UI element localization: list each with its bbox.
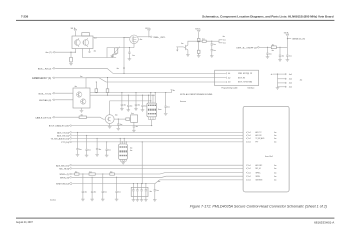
capacitor C418	[86, 135, 87, 136]
wire AUX_TX	[72, 131, 243, 133]
wire Q401 gate	[133, 44, 135, 48]
svg-text:4xx: 4xx	[138, 105, 141, 107]
svg-text:4x1: 4x1	[248, 135, 251, 137]
node collector bias	[198, 41, 199, 42]
resistor R406	[202, 40, 206, 42]
svg-text:4xx 4xx: 4xx 4xx	[50, 200, 56, 202]
capacitor C412	[135, 92, 136, 93]
connector SPKR+	[70, 173, 72, 175]
pin J401 SPKR+	[246, 172, 247, 174]
capacitor C416	[133, 122, 135, 126]
svg-text:4xx: 4xx	[75, 171, 78, 173]
wire TX net	[90, 92, 172, 94]
node C408	[279, 47, 280, 48]
pin row BOOT_RX	[226, 77, 227, 79]
wire R410 to SW_B+	[276, 46, 287, 48]
capacitor C411	[128, 95, 129, 96]
svg-text:4xx: 4xx	[130, 148, 133, 150]
wire FL402 pin3	[123, 138, 125, 144]
capacitor C423	[102, 173, 103, 174]
svg-text:4xx: 4xx	[158, 181, 161, 183]
wire CABLE_DET	[55, 116, 79, 118]
svg-text:August 24, 2007: August 24, 2007	[16, 221, 33, 224]
wire gate net	[116, 47, 134, 49]
wire BOOT_DATA_RX	[72, 125, 152, 127]
connector J401 box	[243, 106, 289, 192]
svg-text:4xx: 4xx	[269, 53, 272, 55]
svg-text:4xx: 4xx	[167, 106, 170, 108]
svg-text:4xx: 4xx	[104, 192, 107, 194]
svg-text:4xx: 4xx	[94, 192, 97, 194]
svg-text:UNSW_B+ (9): UNSW_B+ (9)	[292, 39, 305, 41]
wire Q404 collector	[110, 101, 151, 115]
ferrite bead E402	[89, 173, 95, 175]
wire FL401 pin1	[148, 95, 150, 103]
pin J401 TX_RX_AUD	[246, 138, 247, 140]
wire U451 pin 3 stub	[89, 49, 91, 52]
resistor R407 pullup	[95, 82, 97, 89]
svg-text:PTT (10): PTT (10)	[61, 142, 69, 144]
svg-text:SPKR- (9): SPKR- (9)	[60, 177, 69, 179]
svg-text:4xx xxx: 4xx xxx	[180, 101, 186, 103]
wire SW_B+ riser	[286, 36, 288, 47]
wire bias out	[212, 40, 219, 42]
svg-text:4x: 4x	[271, 74, 273, 76]
svg-text:4xx: 4xx	[110, 171, 113, 173]
pin row BOOT_TX	[226, 81, 227, 83]
svg-text:4xx1: 4xx1	[289, 83, 292, 85]
node C407	[267, 47, 268, 48]
svg-text:4x1: 4x1	[248, 142, 251, 144]
capacitor C410	[121, 92, 122, 93]
svg-text:4xx: 4xx	[140, 39, 143, 41]
svg-text:Programming Cable: Programming Cable	[222, 88, 238, 90]
wire FL402 bottom	[120, 159, 126, 162]
power flag SW_B+ Q401	[147, 30, 150, 32]
footer rule	[16, 218, 334, 219]
svg-text:AUX_MIC: AUX_MIC	[256, 164, 264, 167]
svg-text:SPKR+: SPKR+	[256, 172, 261, 174]
svg-text:SW_B+: SW_B+	[145, 28, 150, 30]
svg-text:SW_B+: SW_B+	[71, 28, 76, 30]
filter FL401 contacts	[148, 105, 150, 106]
wire Q402 collector	[188, 41, 212, 45]
wire IGNITION	[72, 180, 243, 184]
wire R452 to ground	[70, 62, 72, 63]
svg-text:4xx1: 4xx1	[289, 74, 292, 76]
svg-text:4xx: 4xx	[81, 114, 84, 116]
wire FL402 pin2	[121, 142, 123, 144]
capacitor C424	[116, 177, 117, 178]
pin J401 AUX_TX	[246, 132, 247, 134]
connector BOOT_DATA_RX	[70, 125, 72, 127]
input arrow DATA	[176, 47, 178, 51]
wire R409 to Q404	[86, 117, 105, 119]
transistor Q403A	[77, 92, 82, 97]
connector IGNITION	[70, 183, 72, 185]
wire FL401 pin4	[154, 93, 156, 104]
component U402 box	[131, 115, 138, 122]
svg-text:4x1: 4x1	[248, 138, 251, 140]
svg-text:Figure 7-172. PMLD4035A Secure: Figure 7-172. PMLD4035A Secure Control-H…	[190, 204, 327, 208]
wire SPKR+ segment 4	[114, 173, 243, 174]
svg-text:4xx: 4xx	[132, 55, 135, 57]
svg-text:AUX_RX (11): AUX_RX (11)	[57, 135, 69, 138]
svg-text:4xx: 4xx	[272, 50, 275, 52]
svg-text:SPKR-: SPKR-	[256, 176, 261, 178]
ground Q403	[80, 110, 84, 112]
capacitor C419	[97, 138, 98, 139]
svg-text:TX_RX_AUD: TX_RX_AUD	[256, 137, 266, 140]
pin J401 IGNITION	[246, 179, 247, 181]
wire accessory stub 1	[278, 73, 287, 75]
svg-text:4xx: 4xx	[213, 44, 216, 46]
connector AUX_RX	[70, 135, 72, 137]
wire to U451 pin	[74, 49, 76, 53]
capacitor C413	[142, 95, 143, 96]
svg-text:4xxx J4x1: 4xxx J4x1	[265, 156, 273, 158]
capacitor C406	[211, 48, 213, 51]
connector TX_RX_AUD	[70, 138, 72, 140]
ground FL402	[121, 162, 125, 164]
svg-text:4xx: 4xx	[223, 43, 226, 45]
svg-text:4xx: 4xx	[274, 138, 277, 140]
wire Q401 drain	[124, 37, 130, 39]
wire flag to source	[148, 31, 150, 37]
capacitor C407	[267, 47, 269, 53]
svg-text:AUX_MIC (15): AUX_MIC (15)	[56, 164, 69, 167]
wire flag to U451	[74, 31, 76, 36]
svg-text:MIC_HI: MIC_HI	[256, 168, 262, 170]
wire BUS+_RX	[55, 68, 225, 73]
svg-text:SPKR+ (1): SPKR+ (1)	[59, 174, 69, 176]
svg-text:4xx: 4xx	[223, 36, 226, 38]
svg-text:4xx: 4xx	[144, 106, 147, 108]
svg-text:4xx: 4xx	[85, 192, 88, 194]
svg-text:4x1: 4x1	[248, 165, 251, 167]
wire stub OPT1	[219, 40, 223, 41]
svg-text:AUX_RX: AUX_RX	[256, 134, 262, 137]
wire RX net	[90, 94, 155, 96]
svg-text:EMERGENCY (4): EMERGENCY (4)	[32, 77, 51, 80]
wire MIC_HI	[72, 167, 243, 169]
pin J401 AUX_RX	[246, 135, 247, 137]
resistor R452	[70, 57, 73, 62]
transistor Q401	[130, 35, 139, 44]
wire PTT	[72, 141, 243, 143]
connector CABLE_DET	[53, 116, 55, 118]
wire Q403 emitter	[81, 108, 83, 110]
connector BUS+_RX	[53, 68, 55, 70]
pin J401 AUX_MIC	[246, 164, 247, 166]
svg-text:4xx: 4xx	[75, 86, 78, 88]
wire C405 C406	[211, 45, 213, 49]
svg-text:4xx: 4xx	[300, 80, 303, 82]
svg-text:SW_B+: SW_B+	[195, 29, 200, 31]
wire Q402 emitter to ground	[187, 50, 189, 55]
wire accessory stub 4	[278, 86, 287, 88]
connector BUS-_TX	[53, 92, 55, 94]
wire flag to R404	[198, 32, 200, 38]
capacitor C414	[165, 92, 166, 93]
wire Q403 top riser	[85, 78, 87, 88]
resistor R409	[79, 116, 86, 119]
pin row XPRS_BOOT	[226, 73, 227, 75]
svg-text:4x1: 4x1	[248, 172, 251, 174]
wire U451 output to Q401	[93, 37, 130, 39]
dual transistor Q403 box	[73, 88, 90, 108]
svg-text:4xx: 4xx	[274, 172, 277, 174]
svg-text:4xxx: 4xxx	[158, 109, 162, 111]
wire KEYFAIL	[55, 99, 73, 101]
wire FL401 pin3	[152, 95, 154, 103]
svg-text:4xx: 4xx	[124, 105, 127, 107]
wire C451 to ground	[128, 53, 130, 59]
svg-text:4x1: 4x1	[248, 176, 251, 178]
filter FL401 box	[147, 103, 157, 117]
power flag SW_B+ right	[286, 35, 289, 37]
svg-text:KEYFAIL (8): KEYFAIL (8)	[39, 99, 51, 102]
capacitor C427	[141, 183, 142, 184]
svg-text:4xx1: 4xx1	[289, 79, 292, 81]
wire SPKR+ segment 2	[79, 173, 89, 175]
svg-text:SW_B+: SW_B+	[284, 33, 289, 35]
svg-text:BOOT_DATA_RX (13): BOOT_DATA_RX (13)	[49, 125, 69, 128]
ground accessory	[276, 88, 280, 90]
resistor R404	[197, 38, 200, 41]
capacitor C408	[279, 47, 281, 55]
wire FL401 to BOOT_DATA_RX	[151, 120, 153, 126]
svg-text:Schematics, Component Location: Schematics, Component Location Diagrams,…	[202, 15, 334, 19]
wire riser PTT to ignition	[141, 142, 143, 184]
svg-text:4x1: 4x1	[228, 73, 231, 75]
connector AUX_MIC	[70, 164, 72, 166]
svg-text:4x1: 4x1	[248, 168, 251, 170]
wire R405 to ground	[198, 53, 200, 55]
ferrite bead E401	[75, 173, 79, 175]
connector PTT	[70, 141, 72, 143]
node Q401 drain	[123, 37, 124, 38]
wire VIP input	[55, 51, 75, 53]
ground R405	[197, 56, 201, 58]
capacitor C425	[133, 183, 134, 184]
svg-text:4xx: 4xx	[79, 149, 82, 151]
svg-text:BOOT_RX: BOOT_RX	[238, 77, 245, 79]
ferrite bead E403	[110, 173, 115, 175]
wire AUX_RX	[72, 134, 243, 136]
capacitor C415	[118, 119, 119, 120]
capacitor C451 on gate	[128, 48, 130, 53]
svg-text:AUX_TX: AUX_TX	[256, 131, 262, 134]
wire Q401 source	[138, 36, 148, 38]
capacitor array box C425-C428	[131, 187, 148, 196]
svg-text:7-236: 7-236	[21, 15, 29, 19]
svg-text:4xx: 4xx	[94, 51, 97, 53]
svg-text:4xx: 4xx	[213, 50, 216, 52]
svg-text:4xx: 4xx	[156, 190, 159, 192]
capacitor C426	[137, 183, 138, 184]
svg-text:IGNITION: IGNITION	[256, 180, 263, 182]
svg-text:4xx: 4xx	[131, 113, 134, 115]
wire accessory riser	[277, 74, 279, 88]
resistor network box R451	[82, 33, 90, 36]
transistor Q404	[105, 115, 114, 124]
svg-text:4xx: 4xx	[282, 55, 285, 57]
wire TX_RX_AUD	[72, 137, 243, 139]
svg-text:4x1: 4x1	[94, 38, 97, 40]
connector MIC_HI	[70, 168, 72, 170]
wire Q404 emitter	[109, 124, 111, 127]
wire BUS-_TX	[55, 92, 73, 94]
ground R453	[110, 56, 114, 58]
node C405 top	[211, 41, 212, 42]
capacitor C420	[106, 141, 107, 142]
svg-text:6816533H01-A: 6816533H01-A	[314, 220, 334, 224]
connector SPKR-	[70, 177, 72, 179]
svg-text:XPRS_BOOT(B)_OP: XPRS_BOOT(B)_OP	[238, 73, 252, 75]
ground C451	[128, 59, 132, 61]
svg-text:4xx: 4xx	[181, 43, 184, 45]
connector KEYFAIL	[53, 99, 55, 101]
transistor Q403B	[81, 99, 86, 104]
wire boot row2	[86, 77, 225, 79]
node bus row1	[123, 73, 124, 74]
wire DSPL to R410	[259, 46, 271, 48]
svg-text:4xx: 4xx	[274, 168, 277, 170]
wire U451 pin 2 down	[83, 49, 117, 58]
wire SPKR+ segment 3	[95, 173, 110, 175]
svg-text:BUS-_TX (5): BUS-_TX (5)	[39, 93, 52, 95]
svg-text:4xx: 4xx	[99, 149, 102, 151]
svg-text:PTT: PTT	[256, 142, 259, 144]
filter FL402 box	[119, 144, 128, 159]
wire Q402 base	[178, 46, 183, 48]
connector AUX_TX	[70, 132, 72, 134]
capacitor C421	[82, 173, 83, 174]
svg-text:4xx: 4xx	[150, 191, 153, 193]
svg-text:BOOT_TX RX/TX(R): BOOT_TX RX/TX(R)	[238, 82, 252, 84]
wire SPKR+ segment 1	[72, 173, 75, 175]
wire FL402 pin4	[125, 142, 127, 144]
connector EMERGENCY	[53, 77, 55, 79]
svg-text:4xx: 4xx	[130, 106, 133, 108]
svg-text:4xx: 4xx	[274, 142, 277, 144]
wire R453 to ground	[112, 53, 116, 56]
svg-text:4xx: 4xx	[274, 176, 277, 178]
svg-text:4xx: 4xx	[89, 171, 92, 173]
svg-text:4xx: 4xx	[223, 40, 226, 42]
svg-text:4x3: 4x3	[228, 82, 231, 84]
power flag SW_B+ bias	[197, 30, 200, 32]
power flag SW_B+ U451	[74, 30, 77, 32]
transistor Q451A	[74, 40, 80, 46]
node junction VIP	[75, 52, 76, 53]
svg-text:4xx: 4xx	[108, 149, 111, 151]
svg-text:CABLE_DET (3): CABLE_DET (3)	[35, 116, 51, 119]
svg-text:4xx: 4xx	[274, 165, 277, 167]
capacitor C422	[92, 177, 93, 178]
svg-text:4xx: 4xx	[136, 126, 139, 128]
programming cable interface box	[215, 70, 259, 86]
wire divider middle	[198, 42, 200, 50]
svg-text:4xx: 4xx	[173, 90, 176, 92]
svg-text:DSPL_B+_ONOFF (1): DSPL_B+_ONOFF (1)	[236, 47, 256, 49]
ground R452	[69, 63, 73, 65]
capacitor C417	[77, 132, 78, 133]
svg-text:MIC_HI (6): MIC_HI (6)	[59, 169, 69, 171]
pin J401 MIC_HI	[246, 168, 247, 170]
filter FL402 contacts	[120, 146, 121, 147]
svg-text:SWB+_CNTL: SWB+_CNTL	[153, 37, 166, 39]
svg-text:4xx: 4xx	[118, 192, 121, 194]
wire AUX_MIC	[72, 164, 243, 166]
header rule	[16, 20, 334, 21]
svg-text:4xx: 4xx	[115, 115, 118, 117]
svg-text:4x2: 4x2	[228, 77, 231, 79]
pin J401 PTT	[246, 141, 247, 143]
wire C406 to ground	[211, 51, 213, 56]
svg-text:4xx: 4xx	[274, 135, 277, 137]
svg-text:4x1: 4x1	[248, 180, 251, 182]
transistor Q402	[184, 45, 188, 50]
wire Q404 out	[114, 118, 126, 120]
test point TP451	[89, 51, 91, 53]
connector SWB+_CNTL	[150, 36, 152, 38]
resistor R411	[126, 118, 130, 120]
svg-text:4xx1: 4xx1	[289, 87, 292, 89]
resistor R408 pullup	[107, 78, 109, 89]
capacitor C405	[211, 41, 213, 44]
wire to R452	[70, 52, 72, 57]
svg-text:4xx: 4xx	[88, 149, 91, 151]
wire FL401 bottom pins	[149, 117, 156, 120]
capacitor C429	[154, 184, 156, 190]
wire FL401 pin2	[150, 93, 152, 104]
stub TX net end	[171, 90, 173, 93]
wire UNSW_B+ branch	[287, 38, 291, 40]
capacitor C428	[145, 183, 146, 184]
wire EMERGENCY	[55, 78, 225, 82]
wire SPKR-	[72, 176, 243, 177]
thermistor R453	[114, 48, 117, 53]
svg-text:4xx: 4xx	[274, 132, 277, 134]
svg-text:4xx: 4xx	[274, 180, 277, 182]
transistor Q451B	[83, 40, 89, 46]
svg-text:4x1: 4x1	[248, 132, 251, 134]
wire stub OPT2	[219, 41, 223, 43]
svg-text:4xx: 4xx	[130, 150, 133, 152]
connector DSPL_B+_ONOFF	[258, 47, 260, 49]
svg-text:TX_RX/_AUDIO (16): TX_RX/_AUDIO (16)	[51, 138, 70, 141]
svg-text:Interface: Interface	[247, 87, 254, 90]
wire accessory stub 3	[278, 82, 287, 84]
wire accessory input	[273, 73, 278, 75]
resistor R410	[271, 46, 276, 49]
resistor R405	[197, 50, 200, 53]
pin J401 SPKR-	[246, 175, 247, 177]
svg-text:4xx: 4xx	[116, 68, 119, 70]
ground C406	[210, 56, 214, 58]
svg-text:4xx: 4xx	[202, 38, 205, 40]
svg-text:4xx (7): 4xx (7)	[45, 52, 51, 54]
dual transistor U451 box	[72, 36, 93, 49]
svg-text:4xx: 4xx	[80, 76, 83, 78]
wire drain bus down	[123, 38, 125, 74]
svg-text:BUS+_RX (2): BUS+_RX (2)	[38, 68, 52, 70]
wire FL402 pin1	[119, 138, 121, 144]
test point TP402	[123, 67, 124, 68]
wire riser to divider	[107, 48, 114, 58]
